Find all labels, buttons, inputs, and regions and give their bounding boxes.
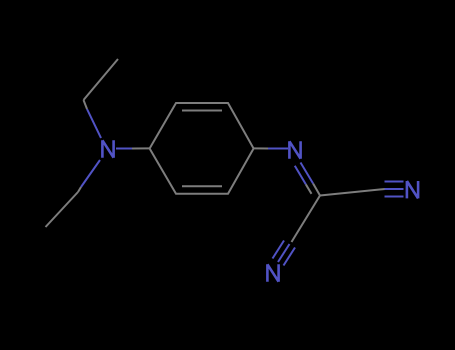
bond N1 - CH2 upper ethyl (blue half) [87, 109, 101, 138]
atom N1 (diethylamino nitrogen) [102, 140, 113, 157]
bond CH2 - CH3 upper ethyl [84, 59, 119, 100]
double bond N2 = C (line b, blue half) [295, 166, 306, 185]
double bond N2 = C (line a, gray half) [313, 184, 320, 196]
double bond N2 = C (line b, gray half) [306, 184, 312, 194]
bond N1 - CH2 lower ethyl (blue half) [81, 160, 100, 187]
atom N2 (imine nitrogen) [289, 141, 300, 158]
bond N1 - ring C1 (blue half) [116, 148, 132, 150]
bond N1 - CH2 lower ethyl (gray half) [78, 187, 81, 192]
bond CH2 - CH3 lower ethyl [46, 192, 79, 227]
ring double bond bottom (inner line) [182, 185, 222, 187]
bond N1 - ring C1 (gray half) [132, 147, 150, 149]
triple bond C#N lower (three lines) [273, 241, 296, 266]
double bond N2 = C (line a, blue half) [301, 163, 314, 184]
bond ring C4 - N2 (blue half) [268, 148, 288, 150]
bond C - C of lower nitrile [292, 196, 321, 243]
triple bond C#N right (three lines) [385, 182, 404, 197]
bond C - C of right nitrile [320, 189, 385, 196]
bond N1 - CH2 upper ethyl (gray half) [84, 100, 88, 109]
atom N3 (right nitrile nitrogen) [407, 181, 418, 198]
atom N4 (lower nitrile nitrogen) [267, 264, 278, 281]
benzene ring (quinoid depiction) [150, 103, 254, 194]
bond ring C4 - N2 (gray half) [254, 147, 268, 149]
ring double bond top (inner line) [182, 110, 222, 112]
